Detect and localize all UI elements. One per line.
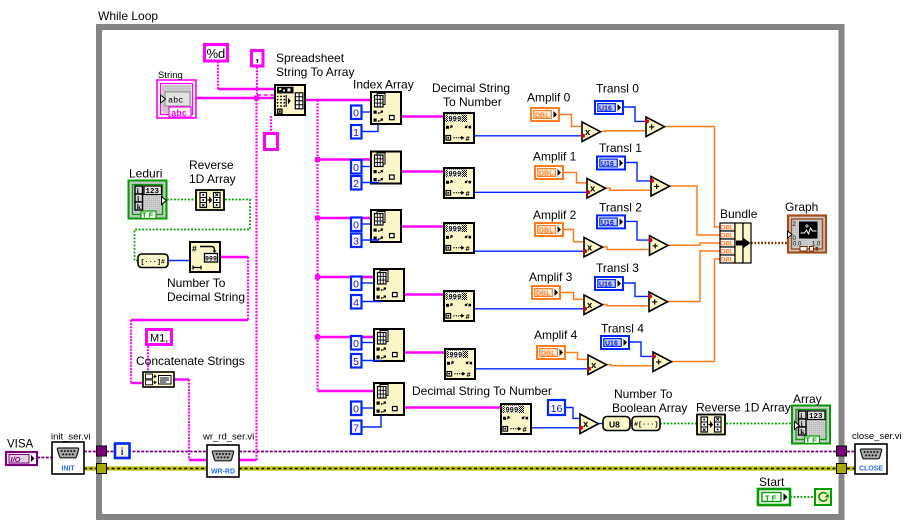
multiply node row 1 (587, 179, 606, 199)
svg-text:Amplif 4: Amplif 4 (534, 328, 578, 342)
svg-text:Decimal String: Decimal String (432, 81, 510, 95)
coercion dot: multiply row 0 (581, 134, 585, 138)
coercion dot: multiply row 1 (586, 190, 590, 194)
svg-text:Transl 1: Transl 1 (599, 141, 642, 155)
svg-text:U8: U8 (609, 420, 620, 430)
tunnel: VISA right (837, 446, 847, 456)
indicator Graph (788, 216, 827, 253)
wire: comma constant to Spreadsheet String To Array delimiter input (256, 67, 258, 95)
wire: VISA resource init to left tunnel (84, 451, 96, 453)
constant 0 (row 3) (351, 277, 362, 291)
wire: constant 0 to Index Array row 4 (362, 342, 373, 344)
svg-text:1: 1 (353, 127, 359, 139)
svg-text:Array: Array (793, 392, 822, 406)
wire: Decimal String To Number row 1 to multiply (475, 191, 586, 193)
svg-text:Transl 2: Transl 2 (599, 201, 642, 215)
constant Amplif 0 (DBL) (531, 108, 559, 121)
svg-text:Reverse: Reverse (189, 158, 234, 172)
node Boolean Array To Number (138, 254, 168, 268)
constant 0 (row 4) (351, 336, 362, 350)
svg-text:Number To: Number To (614, 387, 673, 401)
add node row 3 (649, 292, 668, 312)
tunnel: VISA left (97, 446, 107, 456)
junction: string wire split to String indicator (254, 96, 259, 101)
wire: Index Array row 1 output to Decimal String To Number (402, 170, 443, 172)
svg-text:M1,: M1, (150, 333, 168, 345)
node Bundle (720, 223, 751, 264)
svg-text:4: 4 (353, 297, 359, 309)
svg-text:Reverse 1D Array: Reverse 1D Array (696, 401, 791, 415)
wire: Reverse 1D Array to Array indicator (726, 423, 792, 425)
svg-text:String To Array: String To Array (276, 65, 354, 79)
node Decimal String To Number row 5 (501, 404, 531, 434)
wire: Bundle to Graph (cluster) (751, 242, 788, 245)
svg-text:7: 7 (353, 423, 359, 435)
multiply node row 0 (582, 122, 601, 142)
coercion dot: multiply row 2 (583, 249, 587, 253)
svg-text:0: 0 (353, 404, 359, 416)
constant 5 (row 4) (351, 354, 362, 368)
svg-text:Number To: Number To (167, 276, 226, 290)
wire: string trunk branch to Index Array row 1 (318, 158, 371, 160)
wire: multiply row 0 output to add (600, 130, 646, 133)
wire: Transl 3 constant to add (624, 283, 648, 296)
wire: Index Array row 4 output to Decimal String To Number (405, 351, 444, 353)
constant Amplif 1 (DBL) (535, 166, 563, 179)
node Index Array row 0 (371, 92, 401, 124)
svg-text:Spreadsheet: Spreadsheet (276, 51, 345, 65)
constant 2 (row 1) (351, 176, 362, 190)
subVI close_ser.vi (855, 444, 887, 474)
wire: constant 0 to Index Array row 5 (362, 407, 373, 409)
indicator Array (792, 406, 830, 445)
node Decimal String To Number row 4 (445, 349, 475, 379)
wire: Amplif 2 constant to multiply (564, 230, 583, 242)
constant 3 (row 2) (351, 234, 362, 248)
subVI wr_rd_ser.vi (207, 445, 239, 477)
svg-text:WR-RD: WR-RD (211, 469, 235, 476)
wire: Boolean Array To Number to Number To Decimal String (blue) (168, 260, 189, 262)
multiply node bottom row (580, 414, 599, 434)
svg-text:Boolean Array: Boolean Array (612, 401, 687, 415)
wire: Amplif 3 constant to multiply (561, 293, 583, 300)
string constant %d (205, 45, 228, 62)
svg-text:123: 123 (146, 188, 160, 196)
node Index Array row 2 (371, 210, 401, 242)
constant Transl 1 (U16) (597, 157, 625, 170)
wire: Transl 4 constant to add (630, 342, 652, 356)
while loop border (99, 27, 842, 517)
wire: string trunk branch to Index Array row 4 (318, 336, 374, 338)
constant 0 (row 1) (351, 160, 362, 174)
svg-text:[···]#: [···]# (141, 259, 165, 267)
wire: add row 1 output to Bundle (669, 186, 721, 235)
wire: multiply row 4 output to add (606, 365, 653, 366)
svg-text:#[···]: #[···] (634, 421, 658, 429)
string constant empty (265, 134, 278, 150)
node Number To Decimal String (190, 242, 220, 272)
svg-text:Amplif 3: Amplif 3 (529, 270, 573, 284)
wire: constant 0 to Index Array row 0 (362, 111, 370, 113)
control Leduri (boolean array) (129, 181, 167, 220)
wire: Transl 2 constant to add (626, 221, 649, 240)
junction: trunk row 2 (315, 216, 320, 221)
svg-text:wr_rd_ser.vi: wr_rd_ser.vi (202, 432, 254, 443)
svg-text:2: 2 (353, 178, 359, 190)
add node row 2 (650, 236, 669, 256)
svg-text:T F: T F (142, 211, 154, 220)
wire: constant 0 to Index Array row 2 (362, 223, 370, 225)
loop condition terminal (continue if true) (815, 489, 831, 505)
svg-text:Transl 4: Transl 4 (601, 322, 644, 336)
node Index Array row 5 (374, 383, 404, 415)
svg-text:Decimal String: Decimal String (167, 290, 245, 304)
wire: add row 4 output to Bundle (671, 259, 721, 362)
coercion dot: add row 2 (649, 238, 653, 242)
svg-text:Decimal String To Number: Decimal String To Number (412, 384, 552, 398)
constant 7 (row 5) (351, 421, 362, 435)
constant Amplif 2 (DBL) (535, 223, 563, 236)
wire: add row 0 output to Bundle (664, 127, 721, 228)
node Decimal String To Number row 0 (444, 113, 474, 143)
multiply node row 3 (584, 295, 603, 315)
wire: Index Array row 2 output to Decimal String To Number (402, 225, 443, 227)
wire: constant 0 to Index Array row 3 (362, 282, 373, 284)
svg-text:0: 0 (353, 338, 359, 350)
wire: constant 5 to Index Array row 4 (362, 360, 381, 363)
constant 0 (row 0) (351, 106, 362, 120)
wire: Reverse 1D Array to Boolean Array To Number (135, 200, 251, 261)
svg-text:16: 16 (551, 403, 563, 415)
node Index Array row 1 (371, 152, 401, 184)
node Decimal String To Number row 2 (444, 223, 474, 253)
svg-text:Transl 0: Transl 0 (596, 82, 639, 96)
node Index Array row 3 (374, 269, 404, 301)
svg-text:Start: Start (759, 475, 785, 489)
add node row 1 (651, 177, 670, 197)
constant Transl 0 (U16) (595, 101, 623, 114)
wire: error cluster wr_rd_ser to right tunnel (239, 466, 837, 470)
svg-text:1D Array: 1D Array (189, 172, 236, 186)
wire: Start button to loop condition terminal (790, 496, 815, 498)
wire: constant 0 to Index Array row 1 (362, 166, 370, 168)
wire: string trunk branch to Index Array row 3 (318, 276, 374, 278)
wire: error cluster init to left tunnel (84, 466, 96, 470)
svg-text:Transl 3: Transl 3 (596, 261, 639, 275)
node Reverse 1D Array (top) (196, 190, 224, 210)
svg-text:abc: abc (168, 96, 183, 106)
wire: Index Array row 3 output to Decimal String To Number (405, 293, 443, 295)
wire: Decimal String To Number bottom to multiply (532, 427, 579, 429)
junction: trunk row 1 (315, 157, 320, 162)
constant Amplif 4 (DBL) (537, 346, 565, 359)
svg-text:String: String (158, 70, 183, 81)
indicator String (157, 80, 196, 119)
svg-text:Amplif 2: Amplif 2 (533, 208, 577, 222)
wire: Index Array row 5 output to Decimal String To Number (405, 406, 500, 408)
svg-text:T F: T F (765, 494, 777, 503)
wire: Transl 0 constant to add (624, 107, 645, 121)
wire: 16 constant to multiply (bottom row) (566, 408, 579, 419)
coercion dot: multiply bottom row (579, 426, 583, 430)
wire: Number To Boolean Array to Reverse 1D Array (bottom) (660, 423, 696, 425)
wire: Decimal String To Number row 4 to multiply (476, 368, 587, 370)
svg-text:0: 0 (353, 220, 359, 232)
node Reverse 1D Array (bottom) (697, 415, 725, 435)
wire: Number To Decimal String output down to Concatenate Strings (221, 256, 248, 258)
wire: constant 7 to Index Array row 5 (362, 415, 381, 427)
junction: trunk row 4 (315, 335, 320, 340)
svg-text:%d: %d (207, 46, 226, 61)
node Index Array row 4 (374, 329, 404, 361)
wire: VISA resource wr_rd_ser to right tunnel (239, 451, 837, 453)
svg-text:CLOSE: CLOSE (859, 466, 883, 473)
wire: Decimal String To Number row 3 to multiply (475, 308, 583, 310)
coercion dot: add row 3 (648, 294, 652, 298)
wire: constant 4 to Index Array row 3 (362, 300, 381, 303)
wire: constant 2 to Index Array row 1 (362, 183, 378, 184)
constant Amplif 3 (DBL) (532, 286, 560, 299)
svg-text:Amplif 0: Amplif 0 (527, 91, 571, 105)
node To Unsigned Byte U8 (603, 417, 630, 431)
coercion dot: add row 0 (645, 119, 649, 123)
node Spreadsheet String To Array (275, 85, 305, 115)
svg-text:INIT: INIT (61, 466, 75, 473)
multiply node row 4 (588, 355, 607, 375)
string constant comma (252, 49, 264, 66)
wire: VISA resource inside loop to wr_rd_ser (106, 451, 207, 453)
wire: constant 3 to Index Array row 2 (362, 240, 378, 242)
multiply node row 2 (584, 237, 603, 257)
wire: M1 constant to Concatenate Strings (147, 346, 149, 372)
wire: multiply row 1 output to add (605, 188, 651, 190)
constant 16 (548, 400, 565, 415)
node Decimal String To Number row 1 (444, 168, 474, 198)
coercion dot: multiply row 4 (587, 367, 591, 371)
svg-text:Index Array: Index Array (353, 78, 414, 92)
wire: U8 to Number To Boolean Array (630, 423, 632, 425)
svg-text:Concatenate Strings: Concatenate Strings (136, 354, 245, 368)
wire: Index Array row 0 output to Decimal String To Number (402, 115, 443, 117)
svg-text:close_ser.vi: close_ser.vi (852, 431, 902, 442)
wire: error cluster inside loop to wr_rd_ser (106, 466, 207, 470)
constant 0 (row 5) (351, 402, 362, 416)
constant Transl 2 (U16) (597, 215, 625, 228)
wire: string trunk branch to Index Array row 2 (318, 217, 371, 219)
iteration terminal i (115, 444, 130, 459)
svg-text:I/O: I/O (11, 455, 21, 464)
subVI init_ser.vi (52, 442, 84, 474)
svg-text:0: 0 (353, 162, 359, 174)
wire: multiply row 2 output to add (602, 247, 649, 250)
add node row 0 (646, 117, 665, 137)
tunnel: error right (837, 464, 847, 474)
svg-text:123: 123 (809, 413, 823, 421)
add node row 4 (653, 352, 672, 372)
svg-text:0: 0 (353, 108, 359, 120)
svg-text:abc: abc (171, 109, 187, 119)
coercion dot: multiply row 3 (583, 307, 587, 311)
svg-text:3: 3 (353, 236, 359, 248)
wire: Amplif 1 constant to multiply (564, 173, 586, 183)
constant 0 (row 2) (351, 218, 362, 232)
wire: %d constant to Spreadsheet String To Array format input (217, 62, 219, 90)
wire: Decimal String To Number row 2 to multiply (475, 250, 583, 252)
svg-text:init_ser.vi: init_ser.vi (51, 432, 91, 443)
node Number To Boolean Array (632, 417, 660, 431)
tunnel: error left (97, 464, 107, 474)
svg-text:T F: T F (806, 436, 818, 445)
constant 4 (row 3) (351, 295, 362, 309)
svg-text:i: i (121, 447, 124, 458)
svg-text:Leduri: Leduri (129, 167, 162, 181)
svg-text:To Number: To Number (443, 95, 502, 109)
wire: Transl 1 constant to add (626, 163, 650, 181)
wire: Amplif 0 constant to multiply (560, 115, 581, 127)
wire: multiply row 3 output to add (602, 305, 649, 306)
wire: Decimal String To Number row 0 to multiply (475, 135, 581, 137)
wire: constant 1 to Index Array row 0 (362, 124, 378, 132)
node Decimal String To Number row 3 (444, 291, 474, 321)
wire: string trunk branch to Index Array row 0 (318, 99, 371, 101)
wire: Amplif 4 constant to multiply (566, 353, 587, 360)
svg-text:,: , (256, 49, 260, 64)
wire: Spreadsheet output trunk (306, 99, 318, 101)
svg-text:0: 0 (353, 279, 359, 291)
string constant M1, (147, 330, 172, 345)
wire: Leduri to Reverse 1D Array (top) (167, 199, 195, 201)
wire: Concatenate Strings output down to wr_rd_ser write input (174, 378, 189, 380)
svg-text:Amplif 1: Amplif 1 (533, 150, 577, 164)
constant Transl 3 (U16) (595, 277, 623, 290)
wire: empty string constant to Spreadsheet node bottom input (270, 116, 272, 132)
node Concatenate Strings (143, 372, 174, 387)
coercion dot: add row 4 (652, 354, 656, 358)
wire: multiply bottom to U8 conversion (598, 423, 604, 425)
constant 1 (row 0) (351, 125, 362, 139)
constant VISA resource name (6, 452, 37, 465)
svg-text:Bundle: Bundle (720, 207, 758, 221)
wire: wr_rd_ser read string up to String indicator and Spreadsheet input (239, 459, 257, 461)
wire: error cluster tunnel to close_ser.vi (847, 466, 855, 470)
junction: trunk row 3 (315, 275, 320, 280)
svg-text:Graph: Graph (785, 200, 818, 214)
control Start (boolean TF) (758, 489, 790, 505)
constant Transl 4 (U16) (601, 336, 629, 349)
wire: string trunk branch to Index Array row 5 (318, 390, 374, 392)
svg-text:5: 5 (353, 356, 359, 368)
wire: VISA constant to init_ser.vi (37, 457, 52, 459)
svg-text:While Loop: While Loop (98, 9, 158, 23)
svg-text:VISA: VISA (7, 439, 34, 451)
wire: add row 3 output to Bundle (667, 251, 721, 302)
coercion dot: add row 1 (650, 179, 654, 183)
wire: add row 2 output to Bundle (667, 243, 720, 245)
wire: VISA resource tunnel to close_ser.vi (847, 451, 855, 453)
svg-text:DBL: DBL (721, 257, 734, 264)
